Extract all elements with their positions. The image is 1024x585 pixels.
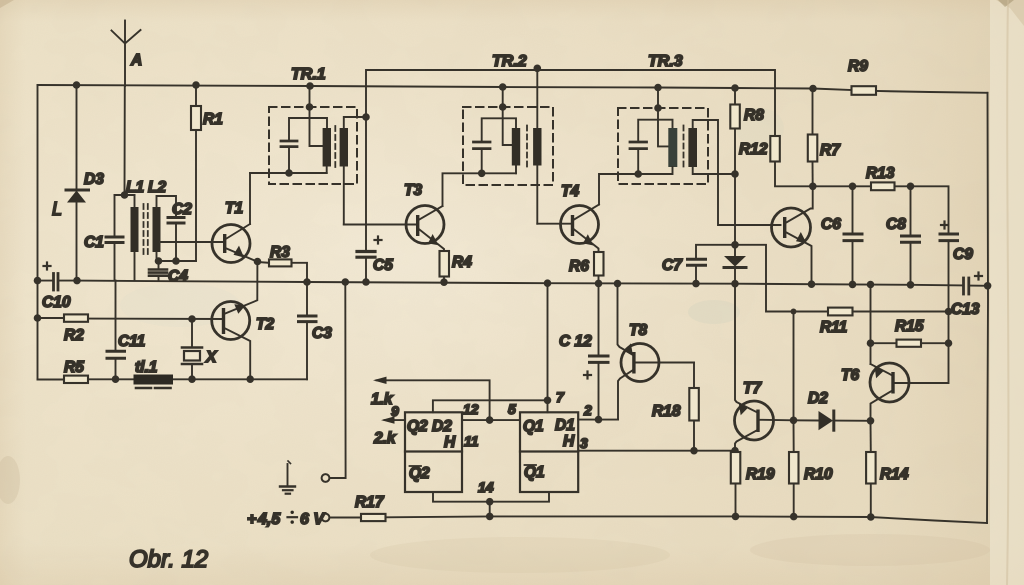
transistor T3 bbox=[404, 182, 444, 251]
wire right-hand rail bbox=[987, 93, 988, 523]
svg-text:R14: R14 bbox=[880, 466, 909, 483]
resistor R18 bbox=[652, 363, 699, 451]
svg-text:C10: C10 bbox=[42, 294, 71, 311]
svg-text:C13: C13 bbox=[951, 301, 980, 318]
svg-text:T7: T7 bbox=[743, 380, 762, 397]
node pin2/C12 bbox=[595, 416, 603, 424]
wire 1.k input bbox=[371, 377, 490, 421]
transformer TR.3 box bbox=[618, 53, 708, 184]
node T1 emitter bbox=[254, 258, 262, 266]
svg-text:4,5: 4,5 bbox=[257, 511, 281, 528]
core TR.3 bbox=[683, 126, 685, 169]
svg-text:R2: R2 bbox=[64, 327, 84, 344]
node R13/C6 bbox=[849, 183, 857, 191]
svg-text:L1: L1 bbox=[126, 179, 144, 196]
resistor R8 bbox=[730, 88, 764, 245]
resistor R2 bbox=[38, 314, 222, 344]
svg-text:Q2: Q2 bbox=[409, 465, 430, 482]
wire TR.1 tap bbox=[310, 86, 323, 146]
resistor R12 bbox=[739, 136, 813, 186]
winding TR.3 primary bbox=[638, 128, 677, 174]
node pin7 bbox=[544, 397, 552, 405]
node bus T8 emitter bbox=[614, 280, 622, 288]
svg-text:T8: T8 bbox=[629, 322, 647, 339]
svg-text:A: A bbox=[130, 52, 142, 69]
wire 2.k input pin 9 bbox=[373, 403, 405, 447]
winding TR.2 primary bbox=[482, 128, 521, 173]
svg-text:9: 9 bbox=[391, 403, 399, 419]
node T7 base/D2/R10 bbox=[790, 417, 798, 425]
wire flipflop pin3 row bbox=[579, 450, 736, 452]
node pin14 bbox=[486, 498, 494, 506]
pin 11 label bbox=[464, 433, 479, 449]
node bus D3/C10 bbox=[73, 277, 81, 285]
wire pin12-pin5 bbox=[462, 419, 520, 421]
svg-text:R10: R10 bbox=[804, 466, 833, 483]
node bottom bus R10 bbox=[790, 513, 798, 521]
antenna A bbox=[112, 21, 143, 196]
resistor R3 bbox=[258, 244, 308, 282]
resistor R7 bbox=[808, 89, 841, 187]
svg-text:Obr. 12: Obr. 12 bbox=[129, 546, 208, 573]
svg-text:5: 5 bbox=[508, 401, 516, 417]
node TR.1 top bbox=[306, 103, 314, 111]
wire top supply bus left of R9 bbox=[38, 85, 852, 90]
wire TR.2 tap bbox=[503, 87, 516, 145]
capacitor TR.1 internal bbox=[281, 118, 327, 173]
svg-text:TR.3: TR.3 bbox=[648, 53, 683, 70]
core L1/L2 bbox=[144, 204, 148, 254]
wire antenna coil top bbox=[115, 194, 135, 196]
capacitor C9 bbox=[940, 222, 973, 312]
svg-text:C8: C8 bbox=[886, 216, 906, 233]
svg-text:T3: T3 bbox=[404, 182, 422, 199]
capacitor C11 bbox=[107, 281, 145, 380]
wire mixer row y=186 bbox=[813, 185, 871, 187]
svg-text:R4: R4 bbox=[452, 254, 472, 271]
svg-text:C1: C1 bbox=[84, 234, 104, 251]
capacitor C3 bbox=[299, 282, 333, 379]
svg-text:R12: R12 bbox=[739, 141, 768, 158]
resistor R1 bbox=[191, 85, 223, 261]
node TR.3 top bus bbox=[654, 84, 662, 92]
node detector bbox=[731, 241, 739, 249]
svg-text:H: H bbox=[563, 433, 575, 450]
node T2 collector bbox=[246, 375, 254, 383]
stain top left corner bbox=[0, 0, 14, 8]
node R18 bottom bbox=[690, 447, 698, 455]
wire T6 emitter chain bbox=[870, 285, 872, 365]
wire pin14 bbox=[433, 492, 549, 516]
node top bus R7 bbox=[809, 85, 817, 93]
wire node row y=261 under R1 bbox=[159, 260, 197, 262]
node bottom bus pin14 bbox=[486, 513, 494, 521]
node top bus / D3 bbox=[73, 81, 81, 89]
svg-text:L2: L2 bbox=[148, 179, 166, 196]
svg-text:R8: R8 bbox=[744, 107, 764, 124]
svg-text:D2: D2 bbox=[432, 418, 452, 435]
svg-text:C3: C3 bbox=[312, 325, 332, 342]
pin 5 label bbox=[508, 401, 516, 417]
svg-text:R1: R1 bbox=[203, 111, 223, 128]
svg-text:2.k: 2.k bbox=[373, 430, 397, 447]
page crease right bbox=[1007, 0, 1008, 585]
svg-text:tl.1: tl.1 bbox=[135, 359, 157, 376]
terminal circle keying bbox=[322, 474, 330, 482]
node bottom bus R14 bbox=[867, 513, 875, 521]
diode D2 bbox=[794, 390, 871, 430]
inductor L1 bbox=[126, 179, 144, 281]
winding TR.3 secondary bbox=[688, 120, 780, 225]
svg-text:TR.2: TR.2 bbox=[492, 53, 527, 70]
wire detector to R11 bbox=[735, 245, 828, 312]
node antenna / coil bbox=[121, 191, 129, 199]
capacitor C5 bbox=[357, 117, 393, 282]
capacitor C13 bbox=[951, 273, 988, 319]
diode detector bbox=[724, 245, 746, 284]
node top bus / TR.1 bbox=[306, 82, 314, 90]
transformer TR.2 box bbox=[463, 53, 553, 185]
node pin12/1.k bbox=[486, 416, 494, 424]
resistor R4 bbox=[440, 251, 473, 282]
node TR.2 box top bbox=[499, 103, 507, 111]
crystal X bbox=[182, 319, 218, 379]
node R8 TR.3 link bbox=[731, 170, 739, 178]
capacitor C1 bbox=[84, 195, 123, 281]
node bus T6 chain bbox=[867, 281, 875, 289]
choke tl.1 bbox=[134, 359, 174, 388]
node right rail C13 bbox=[984, 282, 992, 290]
node bus C12/R6 bbox=[595, 280, 603, 288]
node bus diode/T7 bbox=[731, 280, 739, 288]
wire pin7 riser bbox=[547, 283, 549, 412]
svg-text:T6: T6 bbox=[841, 367, 859, 384]
resistor R13 bbox=[866, 165, 949, 234]
node bus pin7 riser bbox=[544, 279, 552, 287]
node TR.3 cap bottom bbox=[634, 170, 642, 178]
resistor R9 bbox=[848, 58, 876, 95]
node bus C5 bbox=[362, 278, 370, 286]
stain top right corner bbox=[996, 0, 1024, 26]
resistor R17 bbox=[330, 494, 490, 521]
svg-text:3: 3 bbox=[580, 435, 588, 451]
capacitor C10 bbox=[38, 263, 78, 312]
wire T1 base bbox=[160, 241, 223, 243]
node rail R2 bbox=[34, 314, 42, 322]
wire T7 base riser bbox=[793, 312, 795, 421]
diode D3 bbox=[66, 85, 104, 281]
svg-text:R11: R11 bbox=[820, 319, 847, 336]
transistor T4 bbox=[561, 183, 600, 252]
capacitor C2 bbox=[168, 201, 192, 261]
svg-text:C6: C6 bbox=[821, 216, 841, 233]
svg-text:Q1: Q1 bbox=[524, 464, 545, 481]
capacitor TR.3 internal bbox=[630, 120, 673, 174]
svg-text:R18: R18 bbox=[652, 403, 681, 420]
node bus R4 bbox=[440, 278, 448, 286]
capacitor C7 bbox=[662, 245, 735, 284]
node bottom bus R19 bbox=[732, 513, 740, 521]
node bus C6 bbox=[849, 281, 857, 289]
node top bus / R1 bbox=[192, 81, 200, 89]
pin 3 label bbox=[580, 435, 588, 451]
node TR.2 top bus bbox=[499, 83, 507, 91]
resistor R6 bbox=[569, 252, 604, 283]
flipflop D1 box bbox=[520, 412, 578, 492]
transistor T8 bbox=[618, 284, 695, 420]
inductor L2 bbox=[148, 179, 176, 261]
node D2/T6/R14 bbox=[867, 417, 875, 425]
node bus T5 emitter bbox=[808, 280, 816, 288]
node R15 left bbox=[867, 339, 875, 347]
wire T4 collector to TR.3 bbox=[599, 174, 638, 205]
pin 7 label bbox=[556, 389, 565, 405]
transistor T2 bbox=[212, 262, 275, 380]
node X bottom bbox=[188, 375, 196, 383]
svg-text:14: 14 bbox=[478, 479, 494, 495]
svg-text:R3: R3 bbox=[270, 244, 290, 261]
stray letter L bbox=[52, 199, 62, 219]
wire T4 base bbox=[537, 223, 571, 225]
svg-text:R6: R6 bbox=[569, 258, 589, 275]
svg-text:D3: D3 bbox=[84, 171, 104, 188]
node R11/T7 base bbox=[791, 309, 797, 315]
svg-text:R15: R15 bbox=[895, 318, 924, 335]
capacitor TR.2 internal bbox=[474, 118, 517, 173]
wire T6 base loop bbox=[895, 312, 949, 384]
wire top supply bus right of R9 bbox=[876, 91, 988, 93]
core TR.1 bbox=[334, 126, 336, 168]
wire T1 collector to TR.1 bbox=[250, 172, 327, 174]
capacitor C12 bbox=[559, 283, 608, 419]
svg-text:Q2: Q2 bbox=[407, 418, 428, 435]
node L2 / row261 bbox=[155, 257, 163, 265]
svg-text:7: 7 bbox=[556, 389, 565, 405]
wire left supply rail bbox=[37, 85, 39, 380]
svg-text:C 12: C 12 bbox=[559, 333, 592, 350]
node top bus R8 bbox=[731, 84, 739, 92]
pin 2 label bbox=[583, 402, 592, 418]
svg-text:C7: C7 bbox=[662, 257, 683, 274]
resistor R15 bbox=[871, 318, 949, 347]
transistor T5 bbox=[772, 186, 813, 284]
svg-text:12: 12 bbox=[463, 401, 479, 417]
node C11 bottom bbox=[112, 375, 120, 383]
svg-text:D2: D2 bbox=[808, 390, 828, 407]
wire T3 base bbox=[344, 224, 417, 226]
node TR.3 box top bbox=[654, 104, 662, 112]
svg-text:R7: R7 bbox=[820, 142, 841, 159]
svg-text:2: 2 bbox=[583, 402, 592, 418]
resistor R10 bbox=[789, 420, 833, 516]
ground bbox=[280, 461, 295, 494]
wire main middle bus bbox=[77, 281, 963, 286]
caption Obr. 12 bbox=[129, 546, 208, 573]
svg-text:D1: D1 bbox=[555, 417, 575, 434]
core TR.2 bbox=[526, 126, 528, 168]
svg-text:6 V: 6 V bbox=[300, 511, 325, 528]
svg-text:Q1: Q1 bbox=[523, 418, 544, 435]
transistor T6 bbox=[841, 363, 909, 421]
pin 14 label bbox=[478, 479, 494, 495]
svg-text:T1: T1 bbox=[225, 200, 243, 217]
node R15 right bbox=[945, 339, 953, 347]
svg-text:R5: R5 bbox=[64, 359, 84, 376]
node C2 / row261 bbox=[172, 257, 180, 265]
svg-text:+: + bbox=[247, 511, 256, 528]
svg-text:T4: T4 bbox=[561, 183, 579, 200]
svg-text:C5: C5 bbox=[373, 257, 393, 274]
node bus terminal link bbox=[342, 278, 350, 286]
winding TR.1 secondary bbox=[340, 117, 366, 225]
svg-text:C9: C9 bbox=[953, 246, 973, 263]
svg-text:C4: C4 bbox=[168, 268, 188, 285]
wire bottom bus bbox=[490, 516, 987, 523]
capacitor C4 bbox=[149, 261, 188, 285]
capacitor C6 bbox=[821, 186, 862, 284]
resistor R19 bbox=[731, 452, 775, 516]
svg-text:L: L bbox=[52, 199, 62, 219]
pin 12 label bbox=[463, 401, 479, 417]
transistor T1 bbox=[212, 173, 257, 263]
svg-text:R13: R13 bbox=[866, 165, 895, 182]
resistor R5 bbox=[38, 359, 308, 383]
transformer TR.1 box bbox=[269, 66, 357, 184]
node R7/R12/T5 bbox=[809, 183, 817, 191]
resistor R11 bbox=[820, 308, 949, 336]
svg-text:11: 11 bbox=[464, 433, 479, 449]
node bus C7 bbox=[692, 280, 700, 288]
svg-text:X: X bbox=[205, 349, 218, 366]
node T2 base / X bbox=[188, 315, 196, 323]
node TR.1 cap bottom bbox=[285, 169, 293, 177]
capacitor C8 bbox=[886, 186, 920, 284]
wire T3 collector to TR.2 bbox=[443, 173, 482, 206]
resistor R14 bbox=[866, 421, 909, 517]
node R13/C8 bbox=[907, 183, 915, 191]
winding TR.1 primary bbox=[323, 128, 331, 173]
svg-text:TR.1: TR.1 bbox=[291, 66, 326, 83]
node TR.2 secondary top rail bbox=[534, 65, 542, 73]
battery terminal +4,5-6V bbox=[247, 511, 329, 528]
node bus R3/C3 bbox=[303, 278, 311, 286]
svg-text:R19: R19 bbox=[746, 466, 775, 483]
flipflop D2 box bbox=[405, 412, 462, 492]
wire upper link rail TR.1 to R12 bbox=[366, 70, 775, 136]
svg-text:R17: R17 bbox=[355, 494, 385, 511]
node T7 collector bbox=[731, 447, 739, 455]
wire pin7 to left flipflop bbox=[433, 400, 548, 412]
svg-text:H: H bbox=[444, 434, 456, 451]
transistor T7 bbox=[735, 284, 794, 451]
svg-text:T2: T2 bbox=[256, 316, 274, 333]
node TR.2 cap bottom bbox=[478, 170, 486, 178]
wire TR.3 tap bbox=[658, 88, 672, 147]
node bus C8 bbox=[907, 281, 915, 289]
svg-text:C11: C11 bbox=[118, 333, 145, 350]
winding TR.2 secondary bbox=[533, 68, 541, 223]
svg-text:R9: R9 bbox=[848, 58, 868, 75]
wire pin2 to T8 base bbox=[578, 419, 618, 421]
svg-text:C2: C2 bbox=[172, 201, 192, 218]
node rail C10 bbox=[34, 277, 42, 285]
node TR.1 secondary top bbox=[362, 113, 370, 121]
wire ground terminal link bbox=[330, 282, 346, 478]
node C9/R11 bbox=[945, 308, 953, 316]
